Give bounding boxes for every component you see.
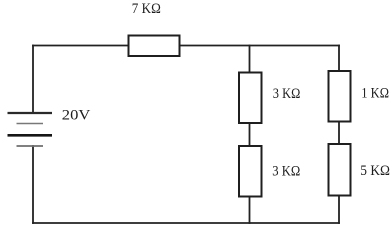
svg-text:5 KΩ: 5 KΩ xyxy=(360,163,390,179)
svg-text:3 KΩ: 3 KΩ xyxy=(273,86,301,102)
svg-text:1 KΩ: 1 KΩ xyxy=(361,85,389,101)
svg-text:3 KΩ: 3 KΩ xyxy=(272,163,300,179)
svg-text:7 KΩ: 7 KΩ xyxy=(132,1,161,17)
svg-text:20V: 20V xyxy=(62,108,91,124)
